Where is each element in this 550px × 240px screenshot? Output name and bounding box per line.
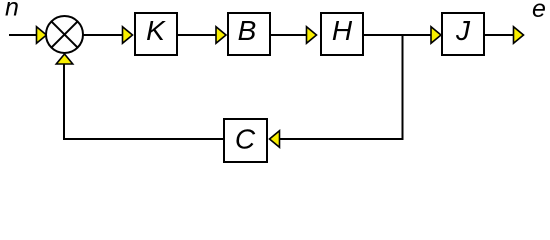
block H xyxy=(321,13,363,55)
arrowhead output xyxy=(514,27,524,44)
block B xyxy=(228,13,270,55)
arrowhead into B xyxy=(216,27,226,44)
arrowhead up into summer xyxy=(56,54,73,64)
wire xyxy=(63,138,223,140)
arrowhead into summer xyxy=(37,27,47,44)
block K xyxy=(135,13,177,55)
block J xyxy=(442,13,484,55)
wire xyxy=(271,34,307,36)
wire xyxy=(9,34,37,36)
wire left vertical xyxy=(63,65,65,141)
block C xyxy=(224,119,267,162)
svg-text:C: C xyxy=(235,124,256,155)
wire xyxy=(178,34,216,36)
arrowhead into C xyxy=(270,131,280,148)
svg-text:B: B xyxy=(238,15,257,46)
arrowhead into H xyxy=(307,27,317,44)
summing junction xyxy=(46,16,83,53)
arrowhead into J xyxy=(431,27,441,44)
wire xyxy=(364,34,431,36)
svg-text:J: J xyxy=(455,15,471,46)
svg-text:e: e xyxy=(532,0,546,23)
svg-text:n: n xyxy=(5,0,19,22)
wire xyxy=(83,34,123,36)
wire branch vertical xyxy=(402,35,404,139)
svg-text:K: K xyxy=(146,15,166,46)
svg-text:H: H xyxy=(332,15,353,46)
arrowhead into K xyxy=(123,27,133,44)
wire xyxy=(485,34,514,36)
wire xyxy=(280,138,404,140)
